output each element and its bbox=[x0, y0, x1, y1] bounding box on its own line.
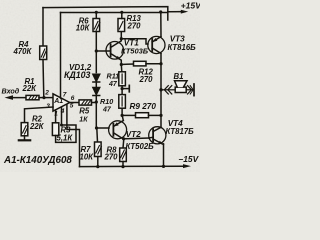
svg-text:10К: 10К bbox=[76, 23, 91, 32]
svg-text:КТ503Б: КТ503Б bbox=[121, 47, 149, 56]
wire R4 to input node bbox=[42, 60, 45, 98]
svg-text:3: 3 bbox=[46, 103, 50, 110]
svg-text:1: 1 bbox=[54, 110, 58, 117]
wire VT1 collector to VT3 base bbox=[121, 39, 148, 44]
node VT1 collector junction bbox=[120, 37, 123, 40]
svg-text:470К: 470К bbox=[13, 47, 33, 56]
svg-text:5: 5 bbox=[70, 103, 74, 110]
svg-text:R5: R5 bbox=[79, 106, 90, 115]
svg-text:Вход: Вход bbox=[2, 87, 20, 96]
svg-text:В1: В1 bbox=[174, 72, 184, 81]
wire VT2 emitter bbox=[122, 115, 123, 120]
svg-text:VT2: VT2 bbox=[126, 130, 141, 139]
node VT2 collector junction bbox=[122, 137, 125, 140]
node midpoint junction bbox=[121, 87, 124, 90]
-15V arrow bbox=[183, 164, 191, 168]
svg-text:КТ502Б: КТ502Б bbox=[126, 142, 155, 151]
diode VD2 bbox=[93, 88, 100, 96]
wire outer R4 top line bbox=[43, 7, 168, 20]
wire VT4 base bbox=[149, 136, 153, 139]
wire E1 to R12 bbox=[121, 63, 133, 66]
wire pin1 to R3 bbox=[55, 110, 57, 123]
node E1 junction bbox=[120, 63, 123, 66]
diode VD1 bbox=[93, 74, 100, 82]
speaker B1 bbox=[175, 81, 188, 93]
transistor Q2 VT2 bbox=[109, 121, 127, 140]
node R6 rail junction bbox=[95, 11, 98, 14]
wire output rail bbox=[160, 64, 162, 128]
wire R6 to VT1 base node bbox=[95, 32, 97, 73]
svg-text:КТ817Б: КТ817Б bbox=[166, 127, 195, 136]
wire pin4 bbox=[61, 108, 63, 126]
resistor R10 bbox=[119, 95, 126, 109]
wire VT1 collector to R13 bbox=[120, 32, 122, 41]
resistor R3 bbox=[52, 123, 58, 136]
svg-text:22К: 22К bbox=[22, 84, 38, 93]
wire node to R9 bbox=[122, 114, 135, 116]
node R9 rail junction bbox=[159, 114, 162, 117]
wire top +15V rail bbox=[61, 12, 168, 14]
wire R11 to midpoint bbox=[121, 86, 123, 95]
svg-text:270: 270 bbox=[104, 153, 119, 162]
wire R12 to output rail bbox=[146, 63, 161, 65]
svg-text:270: 270 bbox=[127, 21, 142, 30]
wire R4 branch from rail bbox=[42, 8, 44, 46]
input arrow Вход bbox=[5, 95, 27, 100]
wire R8 to negative rail bbox=[122, 162, 124, 167]
speaker B1 connector right chevrons bbox=[186, 86, 193, 94]
wire VT3 emitter to rail bbox=[160, 12, 162, 37]
wire VD2 to R5 node and VT2 base bbox=[96, 96, 109, 129]
resistor R1 bbox=[26, 95, 39, 99]
wire pin3 to R2 bbox=[25, 107, 54, 123]
wire VT1 emitter node bbox=[120, 61, 122, 65]
wire E1 to R11 bbox=[120, 65, 123, 72]
svg-text:R10: R10 bbox=[100, 97, 113, 106]
wire R6 rail branch bbox=[95, 12, 97, 18]
wire R13 to rail bbox=[121, 12, 123, 18]
resistor R5 bbox=[79, 100, 92, 105]
resistor R13 bbox=[118, 19, 125, 32]
wire R5 to diode node bbox=[92, 102, 97, 104]
op-amp U1 A1 triangle bbox=[53, 94, 70, 111]
svg-text:22К: 22К bbox=[29, 122, 45, 131]
wire pin5 to negative rail bbox=[67, 105, 80, 167]
resistor R7 bbox=[95, 142, 102, 157]
wire R9 to output rail bbox=[149, 114, 162, 116]
svg-text:КД103: КД103 bbox=[64, 70, 91, 80]
svg-text:6: 6 bbox=[71, 95, 75, 102]
svg-text:2: 2 bbox=[44, 90, 49, 97]
svg-text:47: 47 bbox=[102, 107, 112, 114]
svg-text:КТ816Б: КТ816Б bbox=[168, 43, 197, 52]
wire pin6 output bbox=[70, 102, 79, 104]
transistor Q3 VT3 bbox=[148, 36, 165, 53]
wire VT2 collector down bbox=[122, 139, 125, 148]
node input junction bbox=[42, 96, 45, 99]
resistor R2 bbox=[21, 123, 28, 136]
node VT1 base junction bbox=[95, 49, 98, 52]
wire VT4 emitter to rail bbox=[163, 144, 165, 167]
paper grain bbox=[0, 0, 200, 172]
ground common bar bbox=[19, 139, 30, 141]
wire R1 to op-amp pin2 bbox=[39, 97, 53, 99]
node R12 rail junction bbox=[159, 62, 162, 65]
wire R10 to VT2 emitter node bbox=[121, 108, 123, 115]
svg-text:R9 270: R9 270 bbox=[130, 102, 157, 111]
node VT2 base junction bbox=[95, 126, 98, 129]
wire R3 loop to pin4 bbox=[56, 125, 76, 142]
wire pin7 to +15 rail bbox=[60, 13, 62, 99]
node VT2 emitter junction bbox=[121, 114, 124, 117]
svg-text:5,1К: 5,1К bbox=[57, 134, 74, 143]
paper background bbox=[0, 0, 200, 172]
resistor R6 bbox=[93, 19, 100, 32]
node R5 diode junction bbox=[95, 100, 98, 103]
svg-text:А1-К140УД608: А1-К140УД608 bbox=[3, 155, 72, 166]
svg-text:7: 7 bbox=[63, 92, 67, 99]
svg-text:+15V: +15V bbox=[181, 1, 200, 11]
node R13 rail junction bbox=[120, 11, 123, 14]
speaker B1 connector left chevrons bbox=[161, 86, 175, 94]
wire R7 to negative rail bbox=[97, 157, 99, 167]
test point stub bbox=[122, 85, 129, 91]
wire R2 to common bbox=[24, 136, 26, 140]
svg-text:47: 47 bbox=[108, 81, 118, 88]
svg-text:1К: 1К bbox=[79, 116, 88, 123]
wire VT1 base bbox=[96, 50, 110, 52]
svg-text:4: 4 bbox=[60, 108, 65, 115]
resistor R12 bbox=[134, 61, 147, 66]
svg-text:А1: А1 bbox=[53, 98, 63, 105]
wire VT3 collector to output rail bbox=[160, 54, 162, 64]
wire to R7 bbox=[96, 128, 99, 142]
svg-text:10К: 10К bbox=[80, 153, 95, 162]
node VT3 rail junction bbox=[159, 10, 162, 13]
+15V arrow bbox=[168, 10, 188, 14]
wire bottom -15V rail bbox=[80, 165, 185, 167]
node R7 rail junction bbox=[96, 165, 99, 168]
svg-text:–15V: –15V bbox=[179, 154, 200, 164]
resistor R9 bbox=[136, 113, 149, 118]
svg-text:R11: R11 bbox=[107, 72, 120, 81]
svg-text:270: 270 bbox=[139, 75, 154, 84]
node pin4 junction bbox=[60, 124, 63, 127]
speaker terminal bar bbox=[193, 84, 195, 96]
resistor R4 bbox=[40, 46, 47, 60]
transistor Q4 VT4 bbox=[149, 127, 166, 145]
resistor R11 bbox=[119, 72, 126, 86]
wire VT2 collector to VT4 base bbox=[124, 137, 149, 140]
node VT4 rail junction bbox=[162, 165, 165, 168]
wire VD1 to VD2 bbox=[95, 82, 97, 87]
node speaker junction bbox=[159, 88, 162, 91]
resistor R8 bbox=[120, 148, 127, 162]
node R8 rail junction bbox=[121, 165, 124, 168]
transistor Q1 VT1 bbox=[106, 41, 124, 60]
